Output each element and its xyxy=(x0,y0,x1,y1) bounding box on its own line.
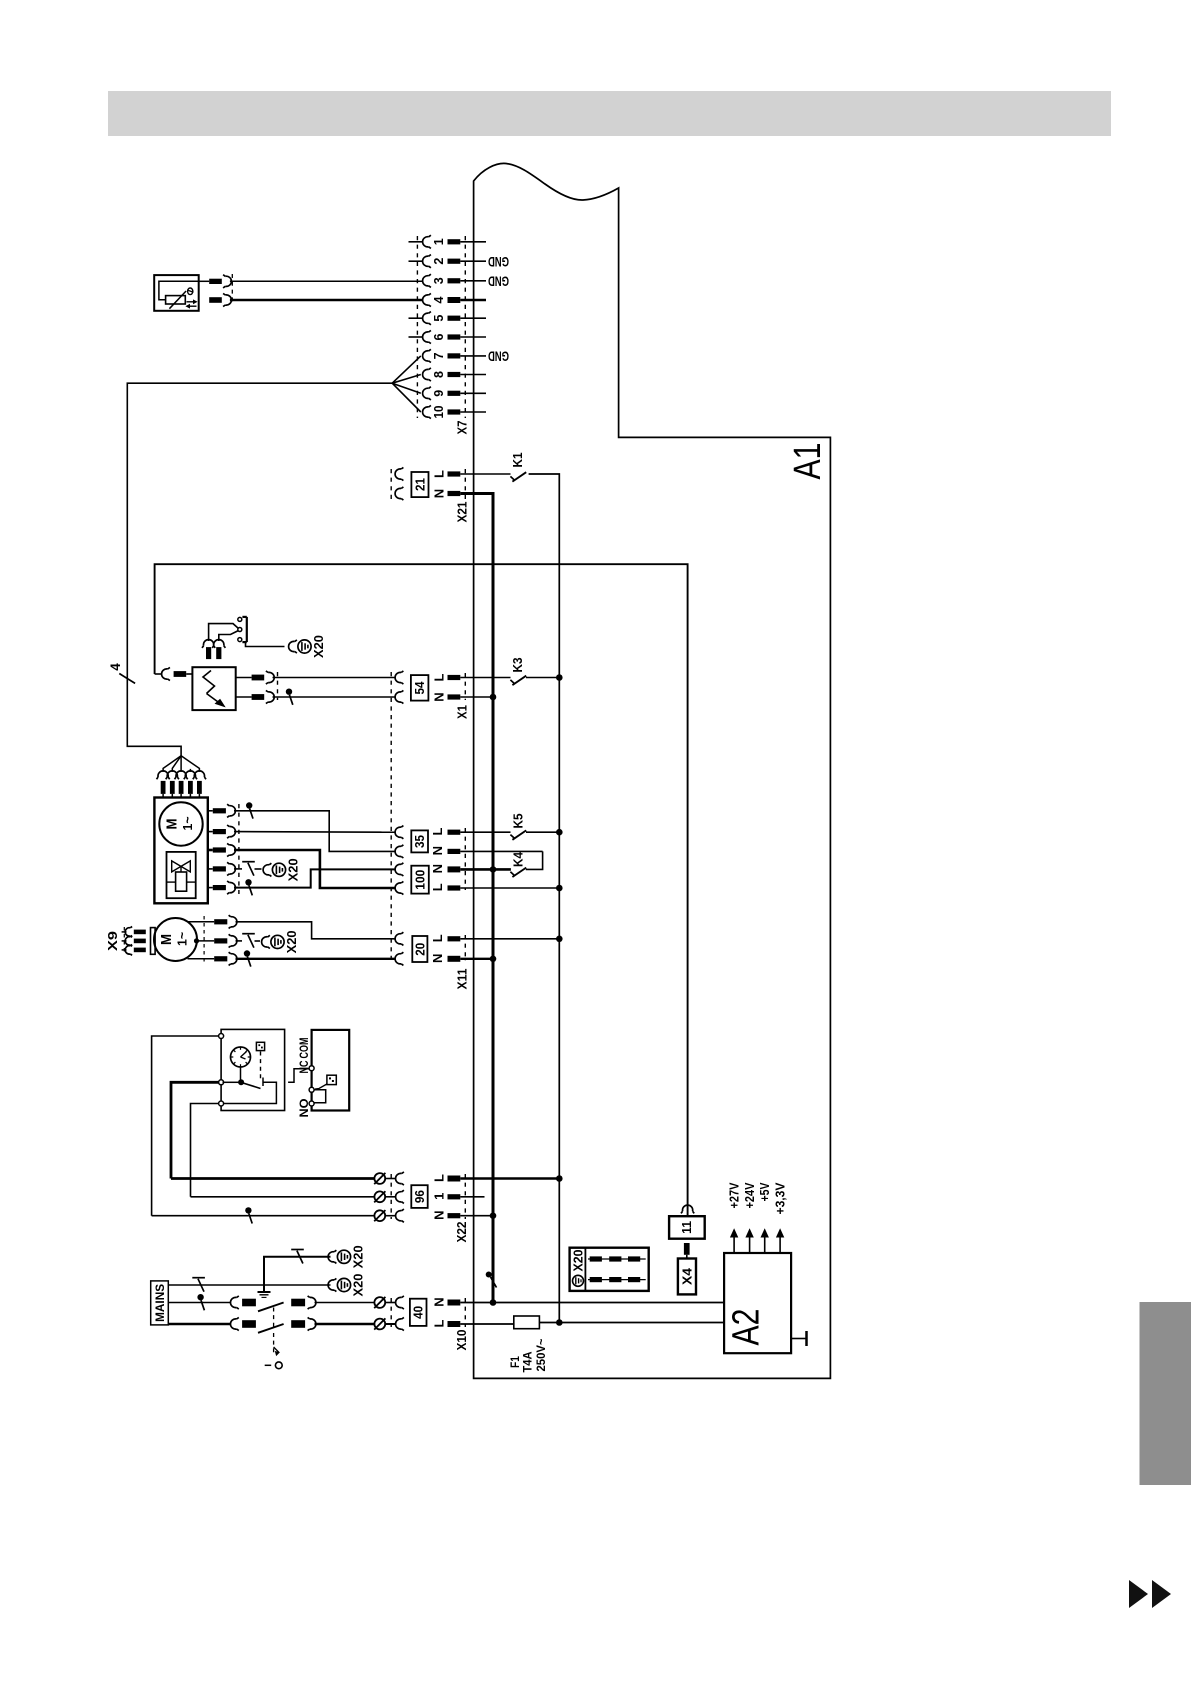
svg-text:A1: A1 xyxy=(787,443,829,480)
wire pump PE to X20 xyxy=(236,934,261,948)
mains L wire xyxy=(168,1323,231,1326)
svg-text:L: L xyxy=(432,1319,447,1327)
connector X7 pin 6 xyxy=(409,330,487,343)
label X22 xyxy=(454,1222,469,1243)
fan motor M1~ xyxy=(159,802,202,845)
pump pins xyxy=(188,915,237,965)
wire pump pin3 to N20 xyxy=(236,950,396,966)
wire N bus xyxy=(460,494,493,1304)
connector housing dashed (54) xyxy=(464,673,466,700)
connector 96 housing dashed xyxy=(391,1174,465,1219)
sensor pin b xyxy=(209,293,423,306)
wire valve pin5 to N100 xyxy=(234,869,395,895)
mains switch xyxy=(230,1296,374,1333)
clock override symbol xyxy=(256,1042,264,1050)
header bar xyxy=(108,91,1111,136)
svg-text:N: N xyxy=(432,1297,447,1306)
svg-text:L: L xyxy=(432,673,447,681)
A2 chassis xyxy=(791,1331,806,1346)
svg-text:L: L xyxy=(430,934,445,942)
connector X7 pin 7 xyxy=(392,349,509,384)
chassis earth X20 (ignition) xyxy=(289,635,327,658)
socket above 11 xyxy=(681,1205,694,1213)
junction dots 20 row xyxy=(490,936,563,963)
svg-text:X7: X7 xyxy=(455,421,470,435)
svg-text:8: 8 xyxy=(432,371,446,378)
svg-text:T4A: T4A xyxy=(520,1351,534,1372)
svg-text:K4: K4 xyxy=(511,851,526,867)
svg-text:40: 40 xyxy=(412,1306,426,1319)
svg-text:54: 54 xyxy=(413,681,427,694)
connector X21 housing (dashed) xyxy=(391,469,465,500)
thermostat NC-NO link xyxy=(314,1090,326,1103)
svg-text:X1: X1 xyxy=(455,705,470,719)
power module A2 xyxy=(724,1253,791,1353)
svg-text:X20: X20 xyxy=(352,1245,366,1268)
chassis earth X20 (pump) xyxy=(262,930,300,953)
svg-text:A2: A2 xyxy=(726,1309,768,1346)
connector X7 pin 9 xyxy=(392,383,486,400)
svg-text:20: 20 xyxy=(413,943,427,956)
connector X7 pin 4 xyxy=(423,293,486,306)
svg-text:COM: COM xyxy=(299,1038,311,1059)
connector X21 pin L xyxy=(395,467,510,480)
upper X20 earth wire xyxy=(264,1250,331,1293)
N bus disconnect marker xyxy=(486,1272,497,1288)
svg-text:M: M xyxy=(163,819,180,830)
pin 11-X4 xyxy=(684,1243,690,1259)
fuse labels xyxy=(508,1339,548,1373)
terminal 40 L screw xyxy=(374,1318,395,1329)
ignition unit box xyxy=(155,667,236,710)
svg-text:K1: K1 xyxy=(510,453,525,468)
svg-text:L: L xyxy=(432,1174,447,1182)
terminal 96 1 xyxy=(191,1190,485,1203)
thermostat relay symbol xyxy=(315,1075,336,1089)
svg-text:L: L xyxy=(430,883,445,891)
svg-text:K5: K5 xyxy=(511,814,526,829)
svg-text:X9: X9 xyxy=(106,931,120,951)
relay contact K3 xyxy=(510,658,559,686)
svg-text:+24V: +24V xyxy=(743,1182,757,1209)
relay contact K4 xyxy=(510,851,542,877)
svg-text:X10: X10 xyxy=(454,1330,469,1351)
connector X1 pin L (54) xyxy=(273,671,511,684)
wire fan pin1 to N35 xyxy=(234,802,395,851)
svg-text:7: 7 xyxy=(432,352,446,359)
svg-text:+5V: +5V xyxy=(758,1182,772,1202)
svg-text:X22: X22 xyxy=(454,1222,469,1243)
terminal 96 L xyxy=(171,1172,559,1185)
electrode block xyxy=(238,617,285,647)
connector pin N (100) xyxy=(395,863,511,876)
svg-text:NC: NC xyxy=(299,1061,311,1074)
svg-text:4: 4 xyxy=(108,663,123,671)
svg-text:N: N xyxy=(432,489,447,498)
wire valve pin3 to L100 xyxy=(234,850,395,888)
wire to clock terminal 3 xyxy=(191,1104,219,1197)
wire valve PE to X20 xyxy=(234,862,262,876)
svg-text:3: 3 xyxy=(432,277,446,284)
wire L bus xyxy=(529,474,560,1323)
label COM xyxy=(299,1038,311,1059)
cable marker 4 xyxy=(108,663,135,684)
chassis earth X20 (mains PE) xyxy=(328,1273,366,1296)
terminal 40 N screw xyxy=(374,1297,395,1308)
svg-text:X20: X20 xyxy=(287,858,301,881)
junction dots 40 xyxy=(490,1299,563,1326)
svg-text:X20: X20 xyxy=(312,635,326,658)
wire to clock terminal 1 xyxy=(152,1036,219,1216)
relay contact K5 xyxy=(510,814,559,840)
junction dots 35-100 xyxy=(490,829,563,891)
svg-text:2: 2 xyxy=(432,258,446,265)
burner unit pins xyxy=(208,804,236,894)
svg-text:MAINS: MAINS xyxy=(155,1284,167,1322)
connector X11 pin N (20) xyxy=(395,952,493,965)
svg-text:4: 4 xyxy=(432,296,446,303)
mains N wire xyxy=(168,1294,231,1310)
page arrows xyxy=(1129,1580,1171,1608)
svg-text:N: N xyxy=(430,954,445,963)
connector X4 xyxy=(678,1259,696,1295)
gas valve xyxy=(167,852,196,898)
burner unit box xyxy=(154,798,207,904)
controller board A1 outline xyxy=(474,163,831,1378)
thermostat COM wire xyxy=(288,1069,309,1083)
connector X10 pin L (40) xyxy=(396,1317,514,1330)
earthing point xyxy=(258,1292,271,1297)
label NC xyxy=(299,1061,311,1074)
svg-text:1~: 1~ xyxy=(180,816,195,830)
svg-text:M: M xyxy=(158,934,175,945)
svg-text:1~: 1~ xyxy=(175,932,190,946)
pump motor M1~ xyxy=(154,918,199,961)
svg-text:1: 1 xyxy=(432,238,446,245)
connector X7 pin 5 xyxy=(409,312,487,325)
label X11 xyxy=(455,969,470,990)
connector housing dashed (20) xyxy=(464,935,466,961)
clock contact xyxy=(223,1067,277,1104)
plug 100 box xyxy=(411,866,429,894)
sensor housing dashed xyxy=(231,274,233,305)
svg-text:X11: X11 xyxy=(455,969,470,990)
svg-text:GND: GND xyxy=(488,273,509,288)
connector pin L (100) xyxy=(395,881,559,894)
svg-text:X4: X4 xyxy=(680,1267,695,1285)
plug 35 box xyxy=(411,830,428,852)
label A1 xyxy=(787,443,829,480)
svg-text:+3,3V: +3,3V xyxy=(774,1182,788,1215)
terminal block X20 xyxy=(570,1248,649,1291)
connector X7 pin 8 xyxy=(392,368,486,383)
svg-text:X21: X21 xyxy=(455,502,470,523)
plug 20 box xyxy=(412,936,427,962)
connector column dashed xyxy=(390,672,392,963)
box 11 xyxy=(669,1216,705,1239)
connector X7 pin 3 xyxy=(423,273,509,288)
label X1 xyxy=(455,705,470,719)
outside sensor xyxy=(154,275,199,311)
svg-text:X20: X20 xyxy=(285,930,299,953)
connector pin N (35) xyxy=(395,845,543,858)
plug 54 box xyxy=(411,675,429,701)
mains PE wire xyxy=(168,1278,330,1292)
svg-text:N: N xyxy=(432,1211,447,1220)
label NO xyxy=(299,1098,311,1117)
connector X1 pin N (54) xyxy=(273,690,494,703)
wire pump pin1 to L20 xyxy=(236,922,396,939)
svg-text:21: 21 xyxy=(414,478,428,491)
thermostat box xyxy=(309,1030,349,1111)
connector X21 pin N xyxy=(395,487,460,500)
side tab xyxy=(1140,1302,1191,1485)
time switch box xyxy=(219,1029,285,1110)
svg-text:L: L xyxy=(432,470,447,478)
connector X11 pin L (20) xyxy=(395,932,559,945)
chassis earth X20 (valve) xyxy=(263,858,301,881)
relay contact K1 xyxy=(510,453,526,482)
label X7 xyxy=(455,421,470,435)
plug 40 box xyxy=(410,1299,427,1326)
svg-text:GND: GND xyxy=(488,349,509,364)
svg-text:N: N xyxy=(430,846,445,855)
plug 21 box xyxy=(411,472,428,497)
svg-text:N: N xyxy=(432,692,447,701)
connector pin L (35) xyxy=(395,826,510,839)
chassis earth X20 (upper) xyxy=(328,1245,366,1268)
svg-text:35: 35 xyxy=(413,835,427,848)
wire to clock terminal 2 xyxy=(171,1082,219,1178)
svg-text:9: 9 xyxy=(432,390,446,397)
svg-text:250V~: 250V~ xyxy=(534,1339,548,1372)
svg-text:100: 100 xyxy=(414,870,428,890)
switch linkage xyxy=(265,1308,282,1369)
wire fan pin2 to L35 xyxy=(234,831,395,834)
fan connector pins xyxy=(157,771,207,798)
connector 40 housing dashed xyxy=(391,1298,465,1327)
svg-text:GND: GND xyxy=(488,254,509,269)
svg-text:X20: X20 xyxy=(352,1273,366,1296)
svg-text:K3: K3 xyxy=(510,658,525,673)
svg-text:X20: X20 xyxy=(572,1249,586,1271)
fuse F1 xyxy=(514,1316,724,1329)
connector X9 xyxy=(106,927,155,956)
burner connector housing (dashed) xyxy=(238,804,240,894)
svg-text:NO: NO xyxy=(299,1098,311,1117)
MAINS box xyxy=(151,1281,169,1325)
fan cable fan-out xyxy=(163,756,199,772)
ignition electrode pins xyxy=(202,624,239,660)
svg-text:1: 1 xyxy=(432,1193,447,1200)
svg-text:5: 5 xyxy=(432,315,446,322)
svg-text:+27V: +27V xyxy=(728,1182,742,1209)
junction dots 54 row xyxy=(490,674,563,700)
ignition unit output pins xyxy=(236,671,293,705)
label X10 xyxy=(454,1330,469,1351)
connector X7 housing (dashed) xyxy=(417,236,465,418)
svg-text:L: L xyxy=(430,827,445,835)
terminal 96 N xyxy=(152,1207,493,1223)
clock link dashed xyxy=(260,1052,262,1081)
plug 96 box xyxy=(411,1185,427,1208)
connector X7 pin 10 xyxy=(392,383,486,418)
junction dots 96 xyxy=(490,1175,563,1219)
connector X7 pin 2 xyxy=(409,254,510,269)
svg-text:10: 10 xyxy=(432,405,446,418)
svg-text:6: 6 xyxy=(432,333,446,340)
connector X10 pin N (40) xyxy=(396,1296,725,1309)
wire ionisation signal xyxy=(155,564,688,1216)
svg-text:96: 96 xyxy=(413,1190,427,1203)
connector X7 pin 1 xyxy=(409,235,487,248)
sensor pin a xyxy=(199,275,423,288)
label X21 xyxy=(455,502,470,523)
connector housing dashed (35-100) xyxy=(464,828,466,890)
clock symbol xyxy=(231,1047,251,1067)
svg-text:11: 11 xyxy=(679,1221,694,1234)
wire X7 harness (4 wires) xyxy=(127,383,392,756)
svg-text:N: N xyxy=(430,864,445,873)
A2 supply arrows xyxy=(728,1182,788,1253)
